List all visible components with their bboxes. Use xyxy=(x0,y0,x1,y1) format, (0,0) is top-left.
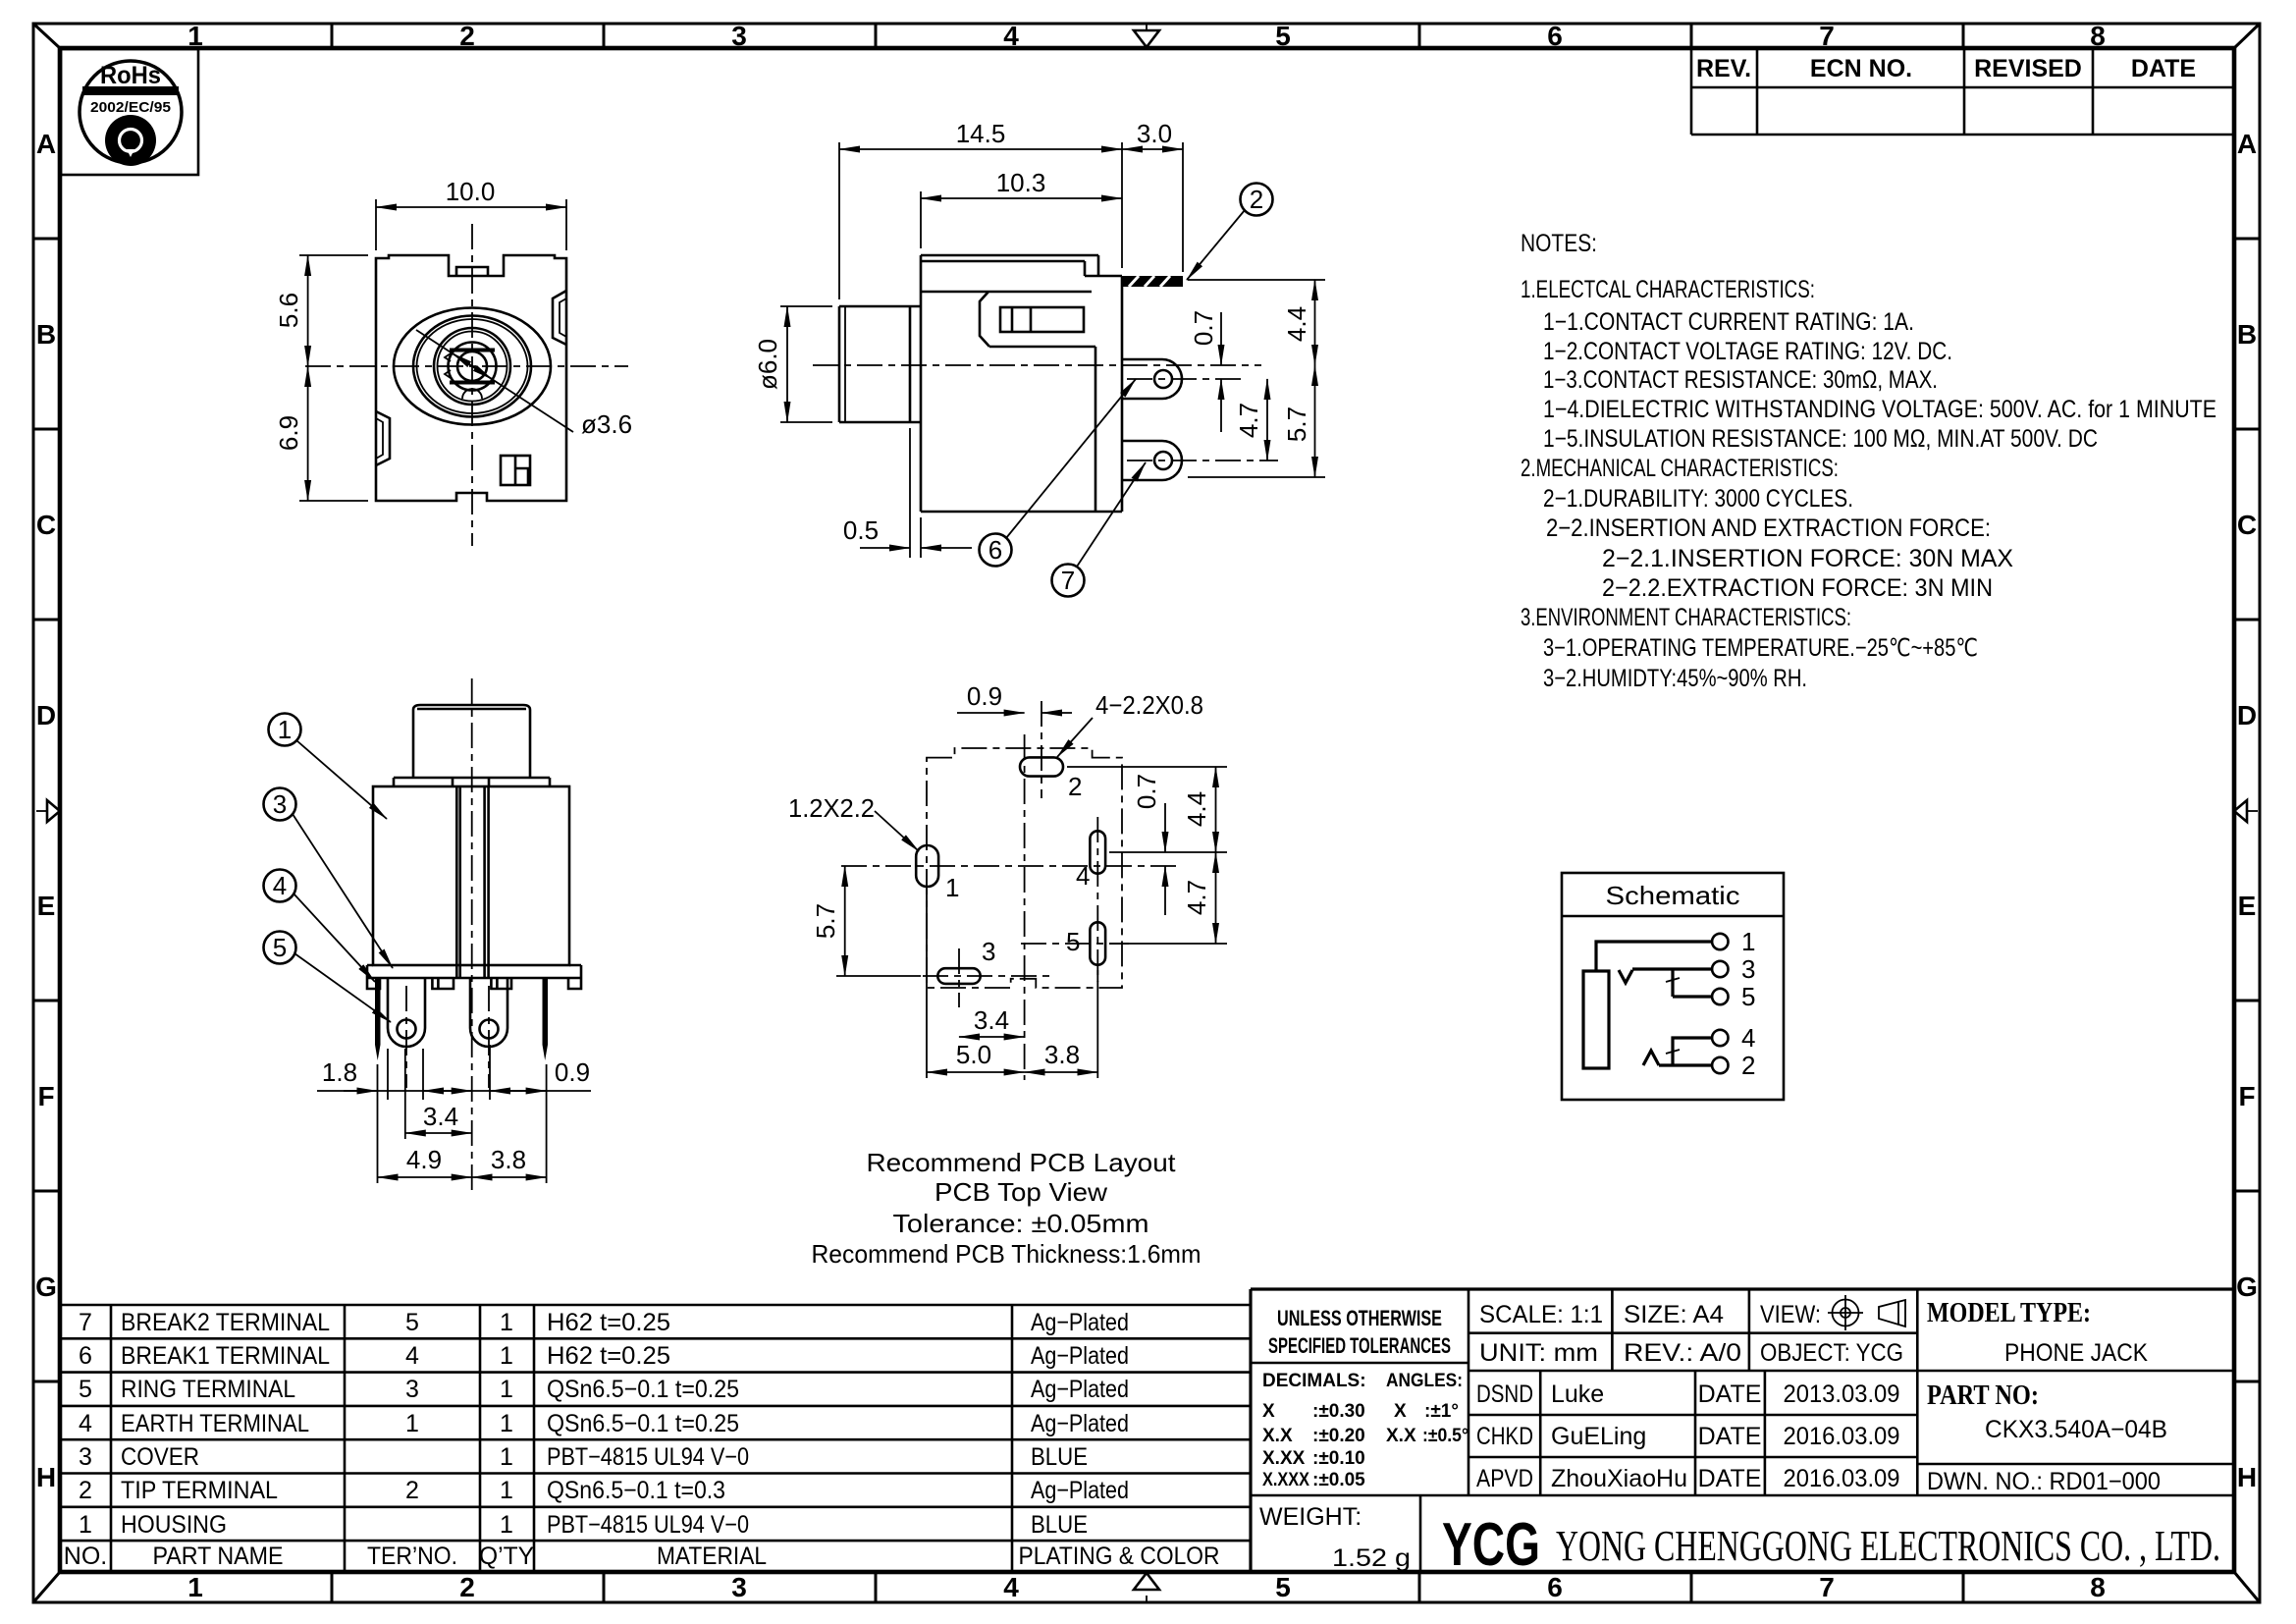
svg-text:1−4.DIELECTRIC WITHSTANDING: 1−4.DIELECTRIC WITHSTANDING VOLTAGE: 500… xyxy=(1543,396,2216,423)
svg-text:7: 7 xyxy=(1819,21,1835,51)
svg-text:1: 1 xyxy=(187,21,203,51)
svg-text:C: C xyxy=(2237,510,2257,540)
svg-text:H62 t=0.25: H62 t=0.25 xyxy=(547,1309,670,1336)
svg-text:3: 3 xyxy=(982,937,995,966)
svg-text:BREAK2 TERMINAL: BREAK2 TERMINAL xyxy=(121,1309,330,1336)
svg-text:E: E xyxy=(37,891,56,921)
svg-text:1: 1 xyxy=(500,1342,513,1370)
svg-text:1−3.CONTACT RESISTANCE: 30mΩ: 1−3.CONTACT RESISTANCE: 30mΩ, MAX. xyxy=(1543,366,1938,394)
svg-text:0.9: 0.9 xyxy=(967,681,1002,711)
svg-text:4−2.2X0.8: 4−2.2X0.8 xyxy=(1095,690,1203,720)
svg-text:CKX3.540A−04B: CKX3.540A−04B xyxy=(1985,1416,2167,1443)
svg-text:F: F xyxy=(2238,1081,2255,1111)
svg-text:5: 5 xyxy=(1275,1572,1291,1602)
svg-text:YCG: YCG xyxy=(1442,1511,1540,1579)
svg-text:0.9: 0.9 xyxy=(555,1057,590,1087)
svg-text:YONG CHENGGONG ELECTRONICS: YONG CHENGGONG ELECTRONICS CO. , LTD. xyxy=(1556,1522,2220,1570)
svg-text:QSn6.5−0.1 t=0.25: QSn6.5−0.1 t=0.25 xyxy=(547,1410,739,1437)
svg-text:1: 1 xyxy=(500,1477,513,1504)
svg-text:8: 8 xyxy=(2090,21,2106,51)
svg-text:DATE: DATE xyxy=(1698,1465,1762,1492)
svg-text:1: 1 xyxy=(405,1410,419,1437)
svg-text:D: D xyxy=(36,700,56,731)
svg-text:UNLESS OTHERWISE: UNLESS OTHERWISE xyxy=(1277,1306,1442,1330)
svg-text:VIEW:: VIEW: xyxy=(1760,1301,1821,1328)
svg-text:SIZE: A4: SIZE: A4 xyxy=(1624,1301,1724,1328)
svg-text:5.0: 5.0 xyxy=(956,1040,991,1069)
svg-text::±0.20: :±0.20 xyxy=(1312,1426,1365,1446)
svg-text:Ag−Plated: Ag−Plated xyxy=(1031,1376,1129,1403)
svg-text:DECIMALS:: DECIMALS: xyxy=(1262,1371,1366,1391)
svg-text:Recommend PCB Thickness:1.6m: Recommend PCB Thickness:1.6mm xyxy=(812,1239,1201,1269)
svg-text:PLATING & COLOR: PLATING & COLOR xyxy=(1019,1543,1220,1570)
svg-text:1−1.CONTACT CURRENT RATING:: 1−1.CONTACT CURRENT RATING: 1A. xyxy=(1543,308,1914,336)
svg-text:BLUE: BLUE xyxy=(1031,1443,1088,1471)
svg-text:1: 1 xyxy=(187,1572,203,1602)
svg-text:C: C xyxy=(36,510,56,540)
svg-text:1.ELECTCAL CHARACTERISTICS:: 1.ELECTCAL CHARACTERISTICS: xyxy=(1521,276,1815,303)
svg-text:1: 1 xyxy=(500,1511,513,1539)
svg-text:1: 1 xyxy=(1741,927,1755,956)
svg-text:REVISED: REVISED xyxy=(1974,55,2082,82)
svg-text:2: 2 xyxy=(459,1572,475,1602)
svg-text:PCB Top View: PCB Top View xyxy=(934,1177,1107,1207)
svg-text:TIP TERMINAL: TIP TERMINAL xyxy=(121,1477,278,1504)
svg-text:PBT−4815 UL94 V−0: PBT−4815 UL94 V−0 xyxy=(547,1511,749,1539)
svg-text:A: A xyxy=(2237,129,2257,159)
svg-text:DATE: DATE xyxy=(2131,55,2196,82)
svg-text::±0.5°: :±0.5° xyxy=(1422,1426,1468,1446)
svg-text:8: 8 xyxy=(2090,1572,2106,1602)
svg-text:14.5: 14.5 xyxy=(956,119,1006,148)
svg-text:2: 2 xyxy=(459,21,475,51)
svg-text:B: B xyxy=(2237,319,2257,350)
svg-text:BREAK1 TERMINAL: BREAK1 TERMINAL xyxy=(121,1342,330,1370)
svg-text:2: 2 xyxy=(79,1477,92,1504)
svg-text:MODEL TYPE:: MODEL TYPE: xyxy=(1927,1297,2091,1328)
svg-text:6: 6 xyxy=(988,535,1002,565)
svg-text:BLUE: BLUE xyxy=(1031,1511,1088,1539)
svg-text::±1°: :±1° xyxy=(1424,1401,1459,1422)
svg-text:X.XXX: X.XXX xyxy=(1262,1470,1309,1490)
svg-text:4.9: 4.9 xyxy=(406,1145,442,1174)
svg-text:X: X xyxy=(1394,1401,1407,1422)
svg-text:ø6.0: ø6.0 xyxy=(753,339,782,390)
svg-text::±0.10: :±0.10 xyxy=(1312,1448,1365,1469)
svg-text:7: 7 xyxy=(79,1309,92,1336)
svg-text:6.9: 6.9 xyxy=(274,415,303,451)
svg-text:5: 5 xyxy=(405,1309,419,1336)
svg-text:4: 4 xyxy=(1076,861,1090,891)
svg-text:1.8: 1.8 xyxy=(322,1057,357,1087)
svg-text:5: 5 xyxy=(1275,21,1291,51)
svg-text:CHKD: CHKD xyxy=(1476,1423,1533,1450)
svg-text:ZhouXiaoHu: ZhouXiaoHu xyxy=(1551,1465,1687,1492)
svg-text:1: 1 xyxy=(79,1511,92,1539)
svg-text:0.5: 0.5 xyxy=(843,515,879,545)
svg-text:MATERIAL: MATERIAL xyxy=(657,1543,767,1570)
svg-text:2016.03.09: 2016.03.09 xyxy=(1784,1423,1900,1450)
svg-text:4.4: 4.4 xyxy=(1282,306,1311,342)
svg-text:7: 7 xyxy=(1061,566,1075,595)
svg-text:3: 3 xyxy=(731,21,747,51)
svg-text:2−2.2.EXTRACTION FORCE: 3N: 2−2.2.EXTRACTION FORCE: 3N MIN xyxy=(1602,574,1993,602)
svg-text:1−5.INSULATION RESISTANCE: 1: 1−5.INSULATION RESISTANCE: 100 MΩ, MIN.A… xyxy=(1543,425,2098,453)
svg-text:Schematic: Schematic xyxy=(1606,881,1740,910)
svg-text:3: 3 xyxy=(1741,954,1755,984)
svg-text:RING TERMINAL: RING TERMINAL xyxy=(121,1376,295,1403)
svg-text:PBT−4815 UL94 V−0: PBT−4815 UL94 V−0 xyxy=(547,1443,749,1471)
svg-text:G: G xyxy=(35,1272,57,1302)
svg-text:3: 3 xyxy=(731,1572,747,1602)
svg-text:DSND: DSND xyxy=(1476,1380,1533,1408)
svg-text:WEIGHT:: WEIGHT: xyxy=(1259,1503,1362,1531)
svg-text:TER’NO.: TER’NO. xyxy=(367,1543,457,1570)
svg-text:5: 5 xyxy=(1066,927,1080,956)
svg-text:QSn6.5−0.1 t=0.25: QSn6.5−0.1 t=0.25 xyxy=(547,1376,739,1403)
svg-text:RoHs: RoHs xyxy=(100,62,161,89)
svg-text:5: 5 xyxy=(1741,982,1755,1011)
svg-text:H62 t=0.25: H62 t=0.25 xyxy=(547,1342,670,1370)
svg-text:Q’TY: Q’TY xyxy=(479,1543,534,1570)
svg-text:Ag−Plated: Ag−Plated xyxy=(1031,1342,1129,1370)
svg-text:3.0: 3.0 xyxy=(1137,119,1172,148)
svg-text:7: 7 xyxy=(1819,1572,1835,1602)
svg-text:4: 4 xyxy=(273,871,287,900)
svg-text:1.2X2.2: 1.2X2.2 xyxy=(788,793,875,823)
svg-text:2: 2 xyxy=(1068,772,1082,801)
svg-text:SPECIFIED TOLERANCES: SPECIFIED TOLERANCES xyxy=(1268,1333,1451,1358)
svg-text:QSn6.5−0.1 t=0.3: QSn6.5−0.1 t=0.3 xyxy=(547,1477,725,1504)
svg-text:EARTH TERMINAL: EARTH TERMINAL xyxy=(121,1410,309,1437)
svg-text:A: A xyxy=(36,129,56,159)
svg-text:5.7: 5.7 xyxy=(1282,406,1311,442)
svg-text:5: 5 xyxy=(273,933,287,962)
svg-text:Luke: Luke xyxy=(1551,1380,1604,1408)
svg-text:6: 6 xyxy=(79,1342,92,1370)
svg-text:X.X: X.X xyxy=(1386,1426,1416,1446)
svg-text:3: 3 xyxy=(273,789,287,819)
svg-text:3: 3 xyxy=(405,1376,419,1403)
svg-text::±0.05: :±0.05 xyxy=(1312,1470,1365,1490)
svg-text:NOTES:: NOTES: xyxy=(1521,230,1597,257)
svg-text:E: E xyxy=(2238,891,2257,921)
svg-text:3−2.HUMIDTY:45%~90% RH.: 3−2.HUMIDTY:45%~90% RH. xyxy=(1543,665,1807,692)
svg-text:PART NAME: PART NAME xyxy=(153,1543,284,1570)
svg-text:Recommend PCB Layout: Recommend PCB Layout xyxy=(867,1148,1177,1177)
svg-text:3.8: 3.8 xyxy=(491,1145,526,1174)
svg-text:X.X: X.X xyxy=(1262,1426,1293,1446)
svg-text:1: 1 xyxy=(500,1376,513,1403)
svg-text:B: B xyxy=(36,319,56,350)
svg-text:UNIT: mm: UNIT: mm xyxy=(1479,1339,1598,1367)
svg-text:G: G xyxy=(2236,1272,2258,1302)
svg-text:NO.: NO. xyxy=(64,1543,107,1570)
svg-text:3.8: 3.8 xyxy=(1044,1040,1080,1069)
svg-text:PHONE JACK: PHONE JACK xyxy=(2004,1339,2148,1367)
svg-text:1: 1 xyxy=(945,873,959,902)
svg-text:4: 4 xyxy=(1003,1572,1019,1602)
svg-text:APVD: APVD xyxy=(1476,1465,1533,1492)
svg-text:2: 2 xyxy=(405,1477,419,1504)
svg-text:0.7: 0.7 xyxy=(1189,310,1218,346)
svg-text:2−1.DURABILITY: 3000 CYCLES.: 2−1.DURABILITY: 3000 CYCLES. xyxy=(1543,485,1853,513)
svg-text:6: 6 xyxy=(1547,21,1563,51)
svg-text:Ag−Plated: Ag−Plated xyxy=(1031,1410,1129,1437)
svg-text:2016.03.09: 2016.03.09 xyxy=(1784,1465,1900,1492)
svg-text:1: 1 xyxy=(500,1443,513,1471)
svg-text:4: 4 xyxy=(79,1410,92,1437)
svg-text:PART NO:: PART NO: xyxy=(1927,1380,2039,1411)
svg-text:5.6: 5.6 xyxy=(274,293,303,328)
svg-text:X: X xyxy=(1262,1401,1275,1422)
svg-text:5.7: 5.7 xyxy=(811,903,840,939)
svg-text:3.4: 3.4 xyxy=(974,1005,1009,1035)
svg-text:0.7: 0.7 xyxy=(1132,774,1161,809)
svg-text:1: 1 xyxy=(500,1410,513,1437)
svg-text:4.4: 4.4 xyxy=(1182,791,1211,827)
svg-text:ANGLES:: ANGLES: xyxy=(1386,1371,1463,1391)
svg-text:3.ENVIRONMENT CHARACTERISTICS: 3.ENVIRONMENT CHARACTERISTICS: xyxy=(1521,604,1851,631)
svg-text:COVER: COVER xyxy=(121,1443,199,1471)
svg-text:D: D xyxy=(2237,700,2257,731)
svg-text:HOUSING: HOUSING xyxy=(121,1511,227,1539)
svg-text:4.7: 4.7 xyxy=(1182,880,1211,915)
svg-text:3: 3 xyxy=(79,1443,92,1471)
svg-text:ø3.6: ø3.6 xyxy=(581,409,632,439)
svg-text:1: 1 xyxy=(500,1309,513,1336)
svg-text:2−2.INSERTION AND EXTRACTION: 2−2.INSERTION AND EXTRACTION FORCE: xyxy=(1546,514,1991,542)
svg-text:DWN. NO.: RD01−000: DWN. NO.: RD01−000 xyxy=(1927,1468,2161,1495)
svg-text:H: H xyxy=(36,1462,56,1492)
svg-text:1.52 g: 1.52 g xyxy=(1332,1544,1411,1572)
svg-text:1: 1 xyxy=(278,715,292,744)
svg-text:4: 4 xyxy=(405,1342,419,1370)
svg-text:2.MECHANICAL CHARACTERISTICS:: 2.MECHANICAL CHARACTERISTICS: xyxy=(1521,455,1839,482)
svg-text:Tolerance: ±0.05mm: Tolerance: ±0.05mm xyxy=(893,1209,1149,1238)
svg-text:SCALE: 1:1: SCALE: 1:1 xyxy=(1479,1301,1603,1328)
svg-text:2002/EC/95: 2002/EC/95 xyxy=(90,99,171,116)
svg-text:5: 5 xyxy=(79,1376,92,1403)
svg-text:2−2.1.INSERTION FORCE: 30: 2−2.1.INSERTION FORCE: 30N MAX xyxy=(1602,545,2013,572)
svg-text:ECN NO.: ECN NO. xyxy=(1810,55,1912,82)
svg-text:REV.: A/0: REV.: A/0 xyxy=(1624,1339,1741,1367)
svg-text:2: 2 xyxy=(1250,185,1263,214)
svg-text:Ag−Plated: Ag−Plated xyxy=(1031,1309,1129,1336)
svg-text:1−2.CONTACT VOLTAGE RATING:: 1−2.CONTACT VOLTAGE RATING: 12V. DC. xyxy=(1543,338,1952,365)
svg-text:F: F xyxy=(37,1081,54,1111)
svg-text::±0.30: :±0.30 xyxy=(1312,1401,1365,1422)
svg-text:10.0: 10.0 xyxy=(446,177,496,206)
svg-text:4: 4 xyxy=(1741,1023,1755,1053)
svg-text:4.7: 4.7 xyxy=(1234,403,1263,438)
svg-text:GuELing: GuELing xyxy=(1551,1423,1646,1450)
svg-text:Ag−Plated: Ag−Plated xyxy=(1031,1477,1129,1504)
svg-text:H: H xyxy=(2237,1462,2257,1492)
svg-text:REV.: REV. xyxy=(1696,55,1751,82)
svg-text:3.4: 3.4 xyxy=(423,1102,458,1131)
svg-text:DATE: DATE xyxy=(1698,1380,1762,1408)
svg-text:3−1.OPERATING TEMPERATURE.−25: 3−1.OPERATING TEMPERATURE.−25℃~+85℃ xyxy=(1543,634,1978,662)
svg-text:10.3: 10.3 xyxy=(996,168,1046,197)
svg-text:2013.03.09: 2013.03.09 xyxy=(1784,1380,1900,1408)
svg-text:DATE: DATE xyxy=(1698,1423,1762,1450)
svg-text:X.XX: X.XX xyxy=(1262,1448,1306,1469)
svg-text:4: 4 xyxy=(1003,21,1019,51)
svg-text:6: 6 xyxy=(1547,1572,1563,1602)
svg-text:OBJECT: YCG: OBJECT: YCG xyxy=(1760,1339,1903,1367)
svg-text:2: 2 xyxy=(1741,1051,1755,1080)
